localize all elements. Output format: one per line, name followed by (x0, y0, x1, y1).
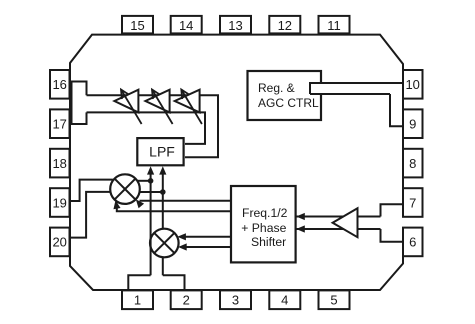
svg-text:8: 8 (409, 156, 416, 171)
wire LO lower (Freq block to mixer M2) (178, 243, 231, 250)
arrow into Freq block top input (296, 213, 305, 220)
pin 6 (403, 228, 423, 257)
svg-text:7: 7 (409, 195, 416, 210)
pin 17 (50, 109, 70, 138)
amplifier A2 (VGA) (145, 90, 172, 125)
svg-text:LPF: LPF (149, 144, 175, 160)
wire vertical B upper (mixer M2 to LPF input right) (162, 173, 164, 229)
wire vertical A (to LPF input left) (150, 173, 152, 275)
wire buffer rail top (pins 7/6 bus to Freq block) (296, 216, 381, 218)
svg-text:4: 4 (281, 293, 288, 308)
block U2 Reg. & AGC CTRL (248, 71, 322, 120)
pin 1 (122, 290, 153, 309)
pin 11 (319, 16, 350, 34)
pin 10 (403, 70, 423, 99)
svg-text:3: 3 (232, 293, 239, 308)
pin 7 (403, 188, 423, 217)
pin 20 (50, 228, 70, 257)
svg-text:14: 14 (179, 18, 193, 33)
mixer M1 (110, 174, 140, 204)
wire differential rail top (bus to VGA chain to LPF) (87, 95, 219, 157)
bus bar pins 16/17 input (72, 82, 87, 125)
bus bottom left (node A to pin 1) (128, 275, 150, 290)
wire AGC CTRL to pin 9 (390, 94, 403, 126)
wire vertical B lower (mixer M2 to bottom bus) (162, 257, 164, 275)
amplifier A1 (VGA) (114, 90, 141, 125)
pin 13 (220, 16, 251, 34)
wire mixer M1 output top to node A (137, 180, 150, 182)
bus bottom right (node B to pin 2) (163, 275, 185, 290)
pin 8 (403, 149, 423, 178)
junction node A (148, 178, 154, 184)
wire LO lower (Freq block to mixer M1) (112, 200, 231, 212)
svg-text:Reg. &: Reg. & (258, 81, 295, 95)
block U3 Freq.1/2 + Phase Shifter (231, 186, 296, 262)
pin 4 (269, 290, 300, 309)
svg-text:+ Phase: + Phase (241, 221, 286, 235)
pin 5 (319, 290, 350, 309)
svg-text:15: 15 (130, 18, 144, 33)
block LPF (137, 138, 183, 165)
arrow into LPF right input (159, 166, 166, 174)
svg-text:11: 11 (327, 18, 341, 33)
wire differential rail bottom (bus to VGA chain to LPF) (87, 112, 206, 143)
svg-text:9: 9 (409, 117, 416, 132)
pin 2 (171, 290, 202, 309)
junction node B (160, 189, 166, 195)
pin 14 (171, 16, 202, 34)
arrow into Freq block bottom input (296, 225, 305, 232)
svg-text:20: 20 (52, 235, 66, 250)
svg-text:6: 6 (409, 235, 416, 250)
svg-text:Shifter: Shifter (251, 235, 286, 249)
wire pin 19 to mixer M1 (70, 180, 113, 201)
wire thick trace AGC CTRL to pin 10 (310, 83, 403, 95)
svg-text:18: 18 (52, 156, 66, 171)
svg-text:19: 19 (52, 195, 66, 210)
pin 15 (122, 16, 153, 34)
svg-text:1: 1 (134, 293, 141, 308)
pin 12 (269, 16, 300, 34)
wire LO upper (Freq block to mixer M1) (133, 197, 231, 208)
pin 16 (50, 70, 70, 99)
amplifier A3 (VGA) (175, 90, 202, 125)
svg-text:13: 13 (228, 18, 242, 33)
amplifier A4 (buffer) (333, 208, 358, 237)
svg-text:Freq.1/2: Freq.1/2 (242, 206, 288, 220)
svg-text:2: 2 (183, 293, 190, 308)
svg-text:10: 10 (405, 77, 419, 92)
wire buffer rail bottom (pins 7/6 bus to Freq block) (296, 228, 381, 230)
pin 19 (50, 188, 70, 217)
pin 9 (403, 109, 423, 138)
wire LO upper (Freq block to mixer M2) (177, 233, 231, 240)
svg-text:17: 17 (52, 117, 66, 132)
mixer M2 (150, 229, 179, 258)
pin 3 (220, 290, 251, 309)
wire mixer M1 output bottom to node B (140, 191, 163, 193)
svg-text:16: 16 (52, 77, 66, 92)
arrow into LPF left input (147, 166, 154, 174)
svg-text:5: 5 (330, 293, 337, 308)
svg-text:12: 12 (278, 18, 292, 33)
bus bar pins 7/6 to buffer (eraser + outline) (381, 204, 405, 242)
svg-text:AGC CTRL: AGC CTRL (258, 96, 319, 110)
pin 18 (50, 149, 70, 178)
chip body outline (octagon) (70, 35, 403, 290)
wire pin 20 to mixer M1 (70, 192, 111, 238)
